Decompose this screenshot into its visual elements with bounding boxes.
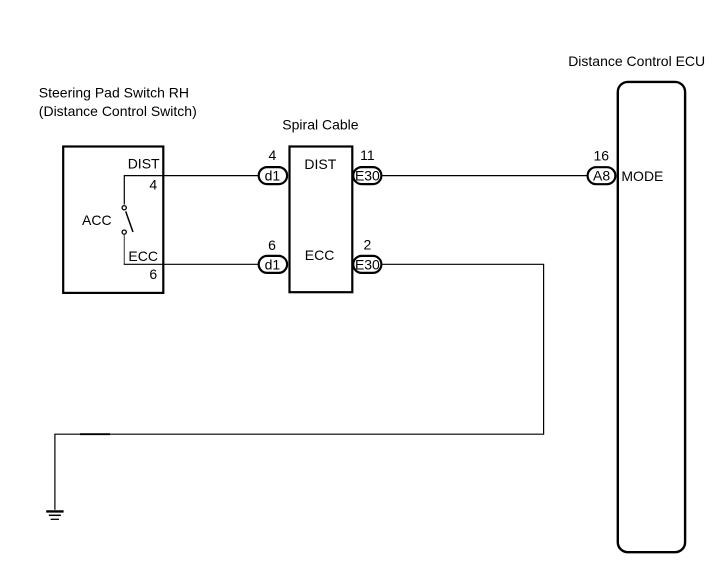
svg-text:DIST: DIST: [304, 156, 336, 172]
wire ECC stem (switch to ECC row): [123, 235, 125, 264]
wire ECC row E30 to ground run: [55, 264, 544, 510]
spiral cable box: [290, 147, 353, 293]
svg-text:d1: d1: [265, 256, 281, 272]
switch contact circle upper: [122, 206, 126, 210]
svg-text:E30: E30: [355, 256, 380, 272]
wire DIST row E30 to A8: [383, 175, 587, 177]
svg-text:4: 4: [149, 177, 157, 193]
wire overlap mark: [80, 433, 110, 435]
svg-text:Steering Pad Switch RH: Steering Pad Switch RH: [39, 85, 189, 101]
ECU box Distance Control ECU: [618, 82, 685, 552]
svg-text:11: 11: [360, 147, 375, 163]
svg-text:(Distance Control Switch): (Distance Control Switch): [39, 103, 197, 119]
switch blade: [126, 211, 133, 232]
connector E30 pin 11: [353, 147, 381, 184]
connector A8 pin 16: [588, 147, 616, 184]
svg-text:16: 16: [594, 147, 610, 163]
svg-text:Distance Control ECU: Distance Control ECU: [568, 53, 705, 69]
svg-text:6: 6: [268, 237, 276, 253]
svg-text:E30: E30: [355, 168, 380, 184]
svg-text:ECC: ECC: [305, 247, 335, 263]
svg-text:ACC: ACC: [82, 212, 112, 228]
svg-text:d1: d1: [265, 168, 281, 184]
connector d1 pin 6: [259, 237, 287, 273]
svg-text:ECC: ECC: [128, 248, 158, 264]
label Steering Pad Switch RH (Distance Control Switch): [39, 85, 197, 119]
svg-text:2: 2: [364, 237, 372, 253]
svg-text:MODE: MODE: [621, 168, 663, 184]
svg-text:6: 6: [149, 266, 157, 282]
switch contact circle lower: [122, 230, 126, 234]
connector E30 pin 2: [353, 237, 381, 273]
svg-text:Spiral Cable: Spiral Cable: [282, 117, 358, 133]
connector d1 pin 4: [259, 147, 287, 184]
svg-text:DIST: DIST: [128, 156, 160, 172]
ground: [46, 511, 63, 519]
svg-text:A8: A8: [593, 168, 610, 184]
wire DIST stem (switch to DIST row): [124, 176, 258, 205]
svg-text:4: 4: [269, 147, 277, 163]
switch box S1 Steering Pad Switch RH: [63, 147, 163, 293]
